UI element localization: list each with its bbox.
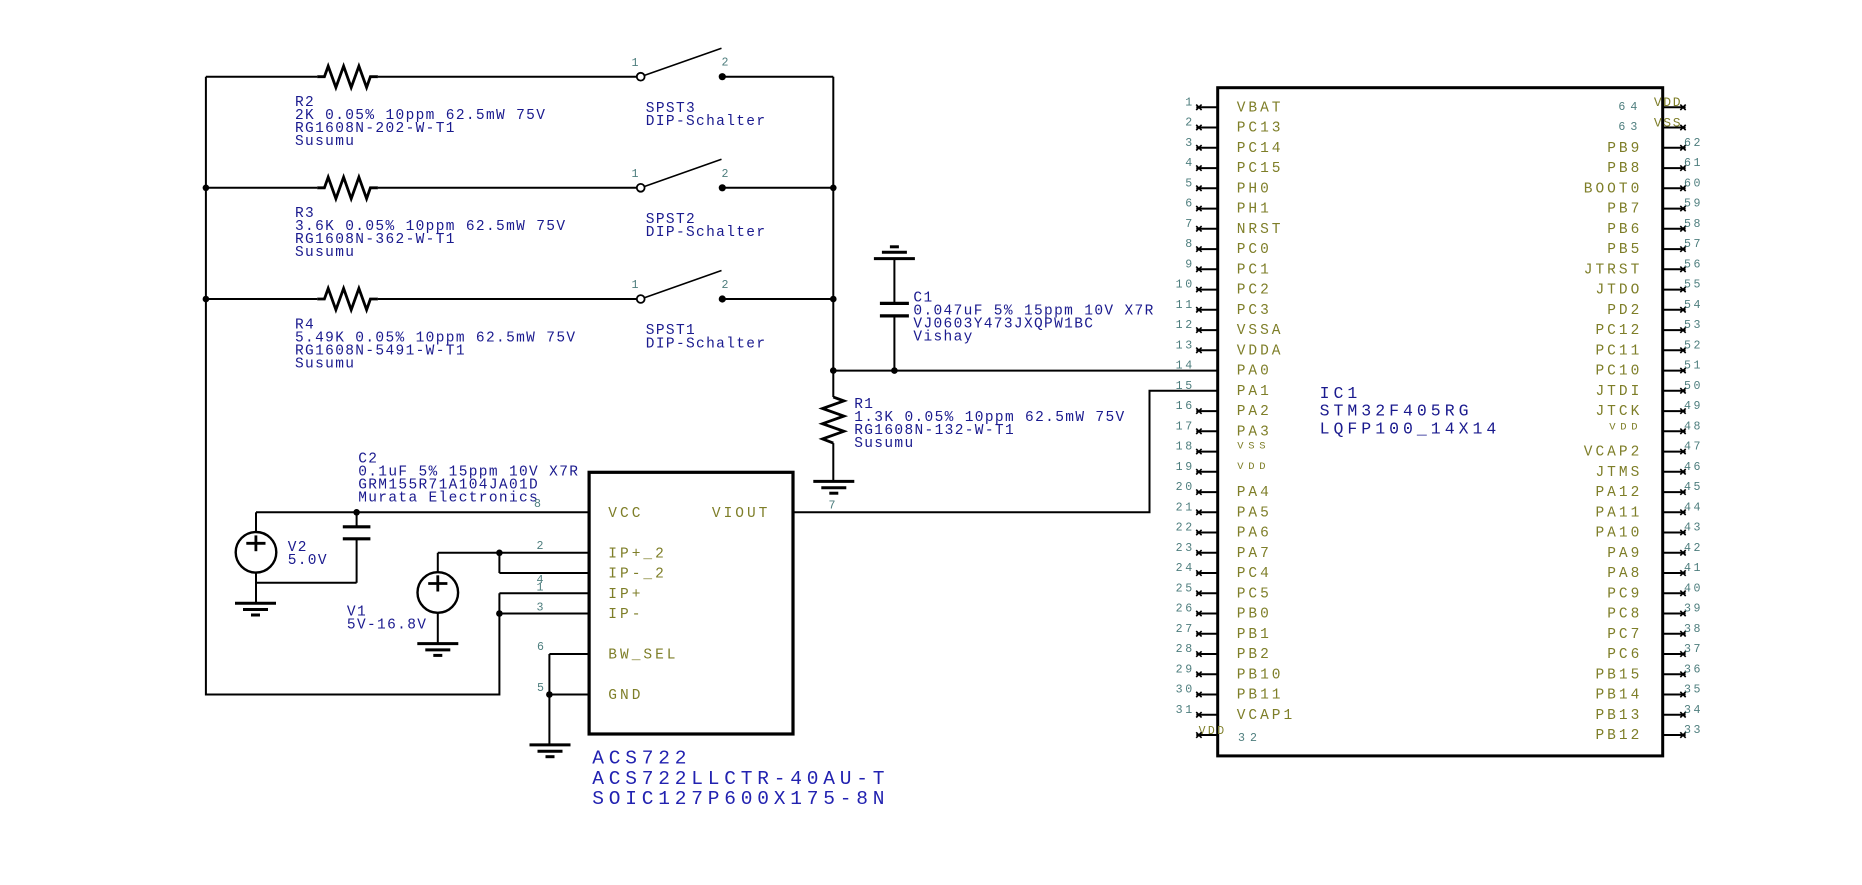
svg-text:49: 49 <box>1684 400 1703 413</box>
node switch SPST2 pin 2 <box>719 184 726 191</box>
svg-text:PB10: PB10 <box>1237 667 1284 683</box>
node junction pin2/pin4 <box>496 550 503 557</box>
wire BW_SEL net (ACS722 pin 6) <box>537 641 589 695</box>
svg-text:37: 37 <box>1684 643 1703 656</box>
svg-text:52: 52 <box>1684 339 1703 352</box>
capacitor C2 <box>256 452 579 583</box>
svg-text:Susumu: Susumu <box>295 134 355 150</box>
svg-text:PC3: PC3 <box>1237 303 1272 319</box>
svg-text:1: 1 <box>631 168 641 181</box>
svg-text:JTDO: JTDO <box>1595 283 1642 299</box>
IC1 pin 54 PD2 <box>1607 299 1703 319</box>
IC1 pin 41 PA8 <box>1607 562 1703 582</box>
svg-text:Murata Electronics: Murata Electronics <box>358 491 539 507</box>
IC1 pin 29 PB10 <box>1176 663 1284 683</box>
IC1 pin 61 PB8 <box>1607 157 1703 177</box>
svg-text:VDDA: VDDA <box>1237 343 1284 359</box>
svg-text:VDD: VDD <box>1609 421 1642 433</box>
IC1 pin 24 PC4 <box>1176 562 1272 582</box>
svg-text:IP-_2: IP-_2 <box>608 567 667 583</box>
resistor R2 <box>295 66 546 150</box>
svg-text:STM32F405RG: STM32F405RG <box>1320 402 1473 421</box>
svg-text:PC2: PC2 <box>1237 283 1272 299</box>
svg-text:15: 15 <box>1176 380 1195 393</box>
svg-text:IP+: IP+ <box>608 587 643 603</box>
IC1 pin 48 VDD <box>1609 420 1703 434</box>
svg-text:PB9: PB9 <box>1607 141 1642 157</box>
wire IP+_2 net (V1 to ACS722 pin 2) <box>438 540 589 553</box>
svg-text:5: 5 <box>1185 177 1195 190</box>
svg-text:PA0: PA0 <box>1237 364 1272 380</box>
svg-text:ACS722LLCTR-40AU-T: ACS722LLCTR-40AU-T <box>592 768 889 790</box>
svg-text:60: 60 <box>1684 177 1703 190</box>
svg-text:PC7: PC7 <box>1607 627 1642 643</box>
svg-text:PC5: PC5 <box>1237 586 1272 602</box>
svg-text:PA9: PA9 <box>1607 546 1642 562</box>
svg-text:21: 21 <box>1176 501 1195 514</box>
svg-text:18: 18 <box>1176 441 1195 454</box>
IC1 pin 12 VSSA <box>1176 319 1284 339</box>
svg-text:5: 5 <box>537 682 547 695</box>
svg-text:4: 4 <box>1185 157 1195 170</box>
ground below V2 <box>235 603 276 615</box>
IC U1 IC1 STM32F405RG body <box>1218 88 1663 756</box>
IC1 pin 43 PA10 <box>1595 522 1703 542</box>
IC1 pin 16 PA2 <box>1176 400 1272 420</box>
node junction PA0/C1 <box>891 367 898 374</box>
svg-text:30: 30 <box>1176 684 1195 697</box>
node junction PA0/R1 <box>830 367 837 374</box>
svg-text:5V-16.8V: 5V-16.8V <box>347 618 427 634</box>
svg-text:10: 10 <box>1176 279 1195 292</box>
IC1 pin 7 NRST <box>1185 218 1283 238</box>
node junction left bus row R4 <box>203 296 210 303</box>
svg-text:VCAP1: VCAP1 <box>1237 708 1296 724</box>
svg-text:JTCK: JTCK <box>1595 404 1642 420</box>
svg-text:VIOUT: VIOUT <box>712 506 771 522</box>
svg-text:VDD: VDD <box>1237 461 1270 473</box>
svg-text:DIP-Schalter: DIP-Schalter <box>646 336 767 352</box>
IC1 pin 44 PA11 <box>1595 501 1703 521</box>
IC1 pin 19 VDD <box>1176 461 1271 475</box>
wire right bus <box>832 77 834 371</box>
IC1 pin 14 PA0 <box>1176 360 1272 380</box>
resistor R1 <box>823 371 1126 482</box>
wire IP-_2 net (ACS722 pin 4) <box>499 573 589 587</box>
svg-text:PC10: PC10 <box>1595 364 1642 380</box>
svg-text:53: 53 <box>1684 319 1703 332</box>
IC1 pin 20 PA4 <box>1176 481 1272 501</box>
capacitor C1 <box>880 291 1155 371</box>
svg-text:39: 39 <box>1684 603 1703 616</box>
svg-text:Susumu: Susumu <box>854 436 914 452</box>
IC1 pin 15 PA1 <box>1176 380 1272 400</box>
IC1 pin 35 PB14 <box>1595 684 1703 704</box>
node switch SPST3 pin 2 <box>719 73 726 80</box>
svg-text:6: 6 <box>1185 198 1195 211</box>
power flipped-ground above C1 <box>874 247 915 304</box>
svg-text:16: 16 <box>1176 400 1195 413</box>
svg-text:PA12: PA12 <box>1595 485 1642 501</box>
svg-text:36: 36 <box>1684 663 1703 676</box>
ground below V1 <box>417 644 458 656</box>
IC1 pin 33 PB12 <box>1595 724 1703 744</box>
IC1 pin 51 PC10 <box>1595 360 1703 380</box>
svg-text:IC1: IC1 <box>1320 384 1362 403</box>
switch SPST1 <box>631 271 766 353</box>
IC1 pin 6 PH1 <box>1185 198 1272 218</box>
op-amp/current sensor U1 ACS722 body <box>589 472 793 734</box>
svg-text:PC13: PC13 <box>1237 121 1284 137</box>
wire R2 row left segment <box>206 76 317 78</box>
svg-text:33: 33 <box>1684 724 1703 737</box>
svg-text:JTRST: JTRST <box>1584 262 1643 278</box>
voltage source V2 <box>236 512 328 603</box>
svg-text:13: 13 <box>1176 339 1195 352</box>
node junction C2/VCC wire <box>353 509 360 516</box>
svg-text:NRST: NRST <box>1237 222 1284 238</box>
IC1 pin 3 PC14 <box>1185 137 1283 157</box>
IC1 pin 63 VSS <box>1618 115 1685 134</box>
IC1 pin 13 VDDA <box>1176 339 1284 359</box>
IC1 pin 36 PB15 <box>1595 663 1703 683</box>
IC1 pin 25 PC5 <box>1176 582 1272 602</box>
IC1 pin 8 PC0 <box>1185 238 1272 258</box>
svg-text:2: 2 <box>536 540 546 553</box>
svg-text:PH1: PH1 <box>1237 202 1272 218</box>
wire pin2 to pin4 vertical <box>498 553 500 573</box>
svg-text:VCAP2: VCAP2 <box>1584 445 1643 461</box>
ground below R1 <box>813 481 854 493</box>
IC1 pin 40 PC9 <box>1607 582 1703 602</box>
svg-text:45: 45 <box>1684 481 1703 494</box>
svg-text:PB12: PB12 <box>1595 728 1642 744</box>
svg-text:31: 31 <box>1176 704 1195 717</box>
svg-text:SOIC127P600X175-8N: SOIC127P600X175-8N <box>592 788 889 810</box>
svg-text:17: 17 <box>1176 420 1195 433</box>
node junction right bus row R3 <box>830 185 837 192</box>
svg-text:PD2: PD2 <box>1607 303 1642 319</box>
svg-text:3: 3 <box>536 602 546 615</box>
svg-text:55: 55 <box>1684 279 1703 292</box>
svg-text:ACS722: ACS722 <box>592 747 691 769</box>
svg-text:PB6: PB6 <box>1607 222 1642 238</box>
wire VCC net (V2 to ACS722 pin 8) <box>256 498 589 512</box>
svg-text:PC9: PC9 <box>1607 586 1642 602</box>
node junction pin1/pin3 <box>496 610 503 617</box>
node junction left bus row R3 <box>203 185 210 192</box>
svg-text:PA10: PA10 <box>1595 526 1642 542</box>
IC1 pin 11 PC3 <box>1176 299 1272 319</box>
svg-text:51: 51 <box>1684 360 1703 373</box>
svg-text:25: 25 <box>1176 582 1195 595</box>
svg-text:26: 26 <box>1176 603 1195 616</box>
IC1 pin 27 PB1 <box>1176 623 1272 643</box>
wire IP- net (ACS722 pin 3) <box>499 602 589 615</box>
node switch SPST1 pin 2 <box>719 295 726 302</box>
IC1 pin 45 PA12 <box>1595 481 1703 501</box>
IC1 pin 17 PA3 <box>1176 420 1272 440</box>
svg-text:PA8: PA8 <box>1607 566 1642 582</box>
svg-text:32: 32 <box>1238 732 1262 745</box>
svg-text:PC0: PC0 <box>1237 242 1272 258</box>
svg-text:JTDI: JTDI <box>1595 384 1642 400</box>
svg-text:VSS: VSS <box>1654 115 1682 130</box>
IC1 pin 5 PH0 <box>1185 177 1272 197</box>
svg-text:GND: GND <box>608 688 643 704</box>
IC1 pin 30 PB11 <box>1176 684 1284 704</box>
IC1 pin 55 JTDO <box>1595 279 1703 299</box>
IC1 pin 42 PA9 <box>1607 542 1703 562</box>
svg-text:PC12: PC12 <box>1595 323 1642 339</box>
IC1 pin 39 PC8 <box>1607 603 1703 623</box>
svg-text:PB13: PB13 <box>1595 708 1642 724</box>
svg-text:BOOT0: BOOT0 <box>1584 181 1643 197</box>
svg-text:1: 1 <box>631 57 641 70</box>
svg-text:VCC: VCC <box>608 506 643 522</box>
svg-text:7: 7 <box>1185 218 1195 231</box>
IC1 pin 59 PB7 <box>1607 198 1703 218</box>
node junction pin5/pin6 <box>546 691 553 698</box>
svg-text:LQFP100_14X14: LQFP100_14X14 <box>1320 419 1501 438</box>
svg-text:23: 23 <box>1176 542 1195 555</box>
wire SPST2 pin2 to right bus <box>722 187 833 189</box>
svg-text:58: 58 <box>1684 218 1703 231</box>
svg-text:11: 11 <box>1176 299 1195 312</box>
IC1 pin 26 PB0 <box>1176 603 1272 623</box>
svg-text:43: 43 <box>1684 522 1703 535</box>
svg-text:PC4: PC4 <box>1237 566 1272 582</box>
svg-text:40: 40 <box>1684 582 1703 595</box>
svg-text:5.0V: 5.0V <box>288 553 328 569</box>
wire node PA0 net (bus to IC1 pin 14) <box>833 370 1217 372</box>
svg-text:PC1: PC1 <box>1237 262 1272 278</box>
svg-text:3: 3 <box>1185 137 1195 150</box>
svg-text:IP-: IP- <box>608 607 643 623</box>
svg-text:20: 20 <box>1176 481 1195 494</box>
svg-text:24: 24 <box>1176 562 1195 575</box>
IC1 pin 28 PB2 <box>1176 643 1272 663</box>
wire R3 to switch <box>378 187 637 189</box>
svg-text:38: 38 <box>1684 623 1703 636</box>
svg-text:PC8: PC8 <box>1607 607 1642 623</box>
wire SPST3 pin2 to right bus <box>722 76 833 78</box>
svg-text:42: 42 <box>1684 542 1703 555</box>
IC1 pin 47 VCAP2 <box>1584 441 1703 461</box>
svg-text:12: 12 <box>1176 319 1195 332</box>
switch SPST2 <box>631 159 766 241</box>
svg-text:PB0: PB0 <box>1237 607 1272 623</box>
IC1 pin 49 JTCK <box>1595 400 1703 420</box>
IC1 pin 60 BOOT0 <box>1584 177 1703 197</box>
svg-text:46: 46 <box>1684 461 1703 474</box>
svg-text:48: 48 <box>1684 420 1703 433</box>
value label ACS722 <box>592 747 889 810</box>
svg-text:56: 56 <box>1684 258 1703 271</box>
svg-text:2: 2 <box>722 168 732 181</box>
svg-text:PH0: PH0 <box>1237 181 1272 197</box>
svg-text:VBAT: VBAT <box>1237 100 1284 116</box>
svg-text:PA11: PA11 <box>1595 505 1642 521</box>
svg-text:VSSA: VSSA <box>1237 323 1284 339</box>
IC1 pin 22 PA6 <box>1176 522 1272 542</box>
svg-text:57: 57 <box>1684 238 1703 251</box>
svg-text:44: 44 <box>1684 501 1703 514</box>
wire IP+ net (ACS722 pin 1) <box>499 581 589 594</box>
svg-text:59: 59 <box>1684 198 1703 211</box>
IC1 pin 37 PC6 <box>1607 643 1703 663</box>
IC1 pin 62 PB9 <box>1607 137 1703 157</box>
svg-text:PB7: PB7 <box>1607 202 1642 218</box>
svg-text:50: 50 <box>1684 380 1703 393</box>
IC1 pin 23 PA7 <box>1176 542 1272 562</box>
svg-text:8: 8 <box>1185 238 1195 251</box>
wire left bus <box>206 77 500 695</box>
svg-text:63: 63 <box>1618 121 1642 134</box>
IC1 pin 4 PC15 <box>1185 157 1283 177</box>
IC1 pin 50 JTDI <box>1595 380 1703 400</box>
svg-text:PC15: PC15 <box>1237 161 1284 177</box>
svg-text:BW_SEL: BW_SEL <box>608 648 678 664</box>
svg-text:PB11: PB11 <box>1237 688 1284 704</box>
svg-text:Susumu: Susumu <box>295 356 355 372</box>
wire VIOUT net (ACS722 pin 7 to IC1 pin 15) <box>793 391 1218 513</box>
svg-text:VDD: VDD <box>1654 95 1682 110</box>
svg-text:JTMS: JTMS <box>1595 465 1642 481</box>
svg-text:DIP-Schalter: DIP-Schalter <box>646 225 767 241</box>
svg-text:2: 2 <box>1185 117 1195 130</box>
svg-text:22: 22 <box>1176 522 1195 535</box>
IC1 pin 34 PB13 <box>1595 704 1703 724</box>
resistor R3 <box>295 177 566 261</box>
svg-text:Susumu: Susumu <box>295 245 355 261</box>
IC1 pin 31 VCAP1 <box>1176 704 1296 724</box>
IC1 pin 10 PC2 <box>1176 279 1272 299</box>
wire SPST1 pin2 to right bus <box>722 298 833 300</box>
svg-text:6: 6 <box>537 641 547 654</box>
svg-text:DIP-Schalter: DIP-Schalter <box>646 114 767 130</box>
IC1 pin 38 PC7 <box>1607 623 1703 643</box>
svg-text:19: 19 <box>1176 461 1195 474</box>
svg-text:1: 1 <box>536 581 546 594</box>
IC1 pin 1 VBAT <box>1185 96 1283 116</box>
svg-text:PB2: PB2 <box>1237 647 1272 663</box>
wire GND net (ACS722 pin 5) <box>537 682 589 745</box>
svg-text:34: 34 <box>1684 704 1703 717</box>
IC1 pin 9 PC1 <box>1185 258 1272 278</box>
svg-text:PB5: PB5 <box>1607 242 1642 258</box>
IC1 pin 18 VSS <box>1176 441 1271 455</box>
svg-text:2: 2 <box>722 279 732 292</box>
IC1 pin 52 PC11 <box>1595 339 1703 359</box>
svg-text:64: 64 <box>1618 101 1642 114</box>
svg-text:27: 27 <box>1176 623 1195 636</box>
svg-text:1: 1 <box>631 279 641 292</box>
wire R4 to switch <box>378 298 637 300</box>
svg-text:29: 29 <box>1176 663 1195 676</box>
svg-text:PA2: PA2 <box>1237 404 1272 420</box>
switch SPST3 <box>631 48 766 130</box>
node junction right bus row R4 <box>830 296 837 303</box>
svg-text:PC6: PC6 <box>1607 647 1642 663</box>
svg-text:PA4: PA4 <box>1237 485 1272 501</box>
IC1 pin 64 VDD <box>1618 95 1685 114</box>
svg-text:PA7: PA7 <box>1237 546 1272 562</box>
IC1 pin 21 PA5 <box>1176 501 1272 521</box>
wire R4 row left segment <box>206 298 317 300</box>
svg-text:IP+_2: IP+_2 <box>608 546 667 562</box>
svg-text:PB8: PB8 <box>1607 161 1642 177</box>
IC1 pin 32 VDD <box>1196 725 1262 745</box>
svg-text:PA1: PA1 <box>1237 384 1272 400</box>
svg-text:62: 62 <box>1684 137 1703 150</box>
wire R2 to switch <box>378 76 637 78</box>
ground below ACS722 pin 5 <box>530 745 571 757</box>
wire R3 row left segment <box>206 187 317 189</box>
IC1 pin 57 PB5 <box>1607 238 1703 258</box>
svg-text:Vishay: Vishay <box>913 330 973 346</box>
svg-text:28: 28 <box>1176 643 1195 656</box>
svg-text:PA3: PA3 <box>1237 424 1272 440</box>
IC1 pin 58 PB6 <box>1607 218 1703 238</box>
svg-text:PC11: PC11 <box>1595 343 1642 359</box>
svg-text:1: 1 <box>1185 96 1195 109</box>
voltage source V1 <box>347 553 458 644</box>
IC1 pin 53 PC12 <box>1595 319 1703 339</box>
svg-text:54: 54 <box>1684 299 1703 312</box>
svg-text:61: 61 <box>1684 157 1703 170</box>
svg-text:PB15: PB15 <box>1595 667 1642 683</box>
svg-text:PB1: PB1 <box>1237 627 1272 643</box>
IC1 pin 2 PC13 <box>1185 117 1283 137</box>
svg-text:PC14: PC14 <box>1237 141 1284 157</box>
svg-text:47: 47 <box>1684 441 1703 454</box>
IC1 pin 56 JTRST <box>1584 258 1703 278</box>
IC1 pin 46 JTMS <box>1595 461 1703 481</box>
svg-text:2: 2 <box>722 57 732 70</box>
svg-text:8: 8 <box>534 498 544 511</box>
svg-text:7: 7 <box>828 499 838 512</box>
svg-text:41: 41 <box>1684 562 1703 575</box>
svg-text:PA6: PA6 <box>1237 526 1272 542</box>
resistor R4 <box>295 288 576 372</box>
svg-text:PB14: PB14 <box>1595 688 1642 704</box>
svg-text:9: 9 <box>1185 258 1195 271</box>
svg-text:35: 35 <box>1684 684 1703 697</box>
svg-text:VSS: VSS <box>1237 441 1270 453</box>
svg-text:14: 14 <box>1176 360 1195 373</box>
svg-text:PA5: PA5 <box>1237 505 1272 521</box>
